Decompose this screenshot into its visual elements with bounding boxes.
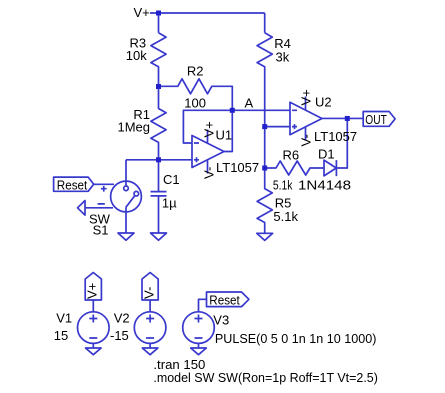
svg-text:OUT: OUT: [365, 112, 387, 127]
svg-text:V+: V+: [299, 89, 314, 105]
svg-text:15: 15: [54, 328, 68, 343]
svg-text:V-: V-: [202, 167, 217, 179]
svg-text:U1: U1: [216, 128, 233, 143]
svg-text:V+: V+: [134, 5, 150, 20]
svg-text:U2: U2: [315, 95, 332, 110]
svg-text:.model SW SW(Ron=1p Roff=1T Vt: .model SW SW(Ron=1p Roff=1T Vt=2.5): [153, 370, 378, 385]
svg-text:1Meg: 1Meg: [118, 119, 151, 134]
svg-text:A: A: [245, 96, 254, 111]
svg-text:D1: D1: [318, 146, 335, 161]
svg-text:PULSE(0 5 0 1n 1n 10 1000): PULSE(0 5 0 1n 1n 10 1000): [215, 331, 377, 346]
svg-text:1µ: 1µ: [162, 195, 177, 210]
svg-text:3k: 3k: [276, 50, 290, 65]
svg-text:V+: V+: [85, 283, 100, 299]
svg-text:V2: V2: [114, 311, 130, 326]
svg-text:C1: C1: [163, 172, 180, 187]
svg-text:V1: V1: [56, 311, 72, 326]
svg-text:V-: V-: [141, 287, 156, 299]
svg-text:R6: R6: [283, 147, 300, 162]
svg-text:Reset: Reset: [57, 177, 88, 192]
svg-text:LT1057: LT1057: [314, 129, 357, 144]
svg-text:-15: -15: [110, 328, 129, 343]
svg-text:V-: V-: [299, 134, 314, 146]
svg-text:V3: V3: [213, 313, 229, 328]
svg-text:V+: V+: [202, 121, 217, 137]
svg-text:R2: R2: [187, 64, 204, 79]
svg-text:LT1057: LT1057: [216, 160, 259, 175]
svg-text:1N4148: 1N4148: [298, 178, 351, 193]
svg-text:5.1k: 5.1k: [273, 209, 298, 224]
svg-text:5.1k: 5.1k: [273, 178, 293, 193]
svg-text:10k: 10k: [126, 48, 147, 63]
svg-text:100: 100: [184, 96, 206, 111]
svg-text:Reset: Reset: [209, 292, 240, 307]
svg-text:S1: S1: [93, 223, 109, 238]
